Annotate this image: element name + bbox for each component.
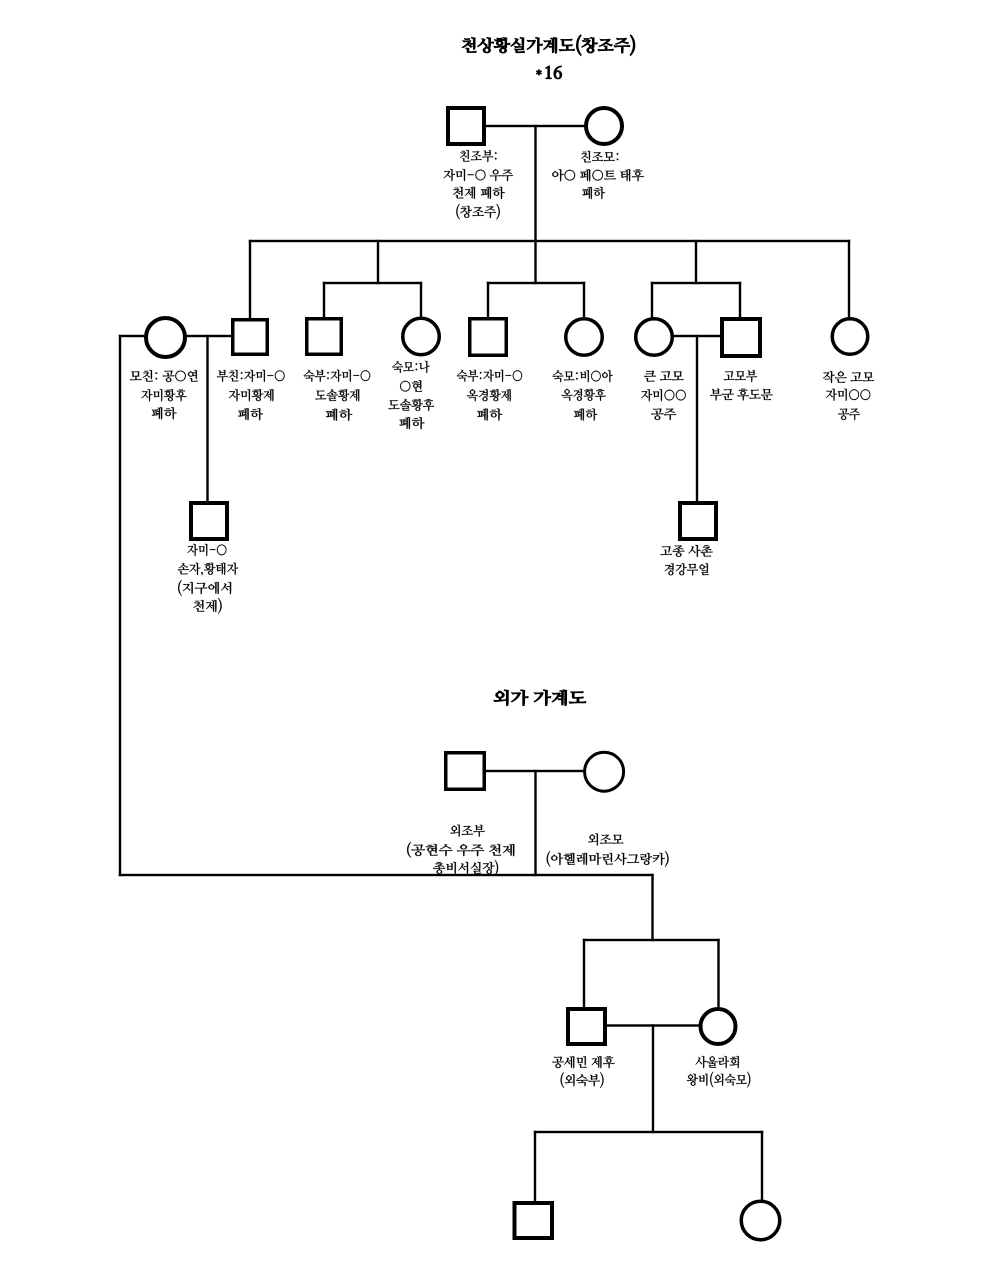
label 큰고모 line1 (644, 371, 684, 382)
label 고종사촌 line2 (665, 563, 709, 575)
wire last generation bus (534, 1131, 763, 1133)
wire drop to bracket 큰고모/고모부 (695, 240, 697, 284)
circle 사울라회 외숙모 (701, 1009, 736, 1044)
square 숙부2 옥경황제 (470, 319, 507, 356)
label 공세민 line2 (561, 1072, 604, 1088)
wire bracket leg to 공세민 (583, 939, 585, 1009)
wire drop to son 자미-○ (206, 335, 208, 502)
wire bracket bar 공세민/사울라회 (583, 939, 720, 941)
label 자미 line3 (178, 580, 231, 596)
circle 외조모 (585, 752, 624, 791)
label 친조모 line1 (581, 151, 618, 163)
label 사울라회 line1 (695, 1056, 739, 1068)
wire marriage 큰고모-고모부 (673, 335, 721, 337)
label 친조부 line1 (460, 150, 497, 162)
wire marriage 외조부-외조모 (485, 770, 585, 772)
label 큰고모 line2 (641, 389, 686, 401)
wire drop to 고종사촌 (696, 335, 698, 502)
wire drop to bracket 숙부1/숙모1 (377, 240, 379, 284)
label 큰고모 line3 (651, 408, 676, 420)
label 자미 line4 (193, 598, 221, 614)
wire bracket bar 숙부1/숙모1 (323, 282, 422, 284)
label 자미 line1 (187, 544, 226, 556)
label 숙부2 line2 (467, 389, 511, 401)
square last generation son (515, 1203, 553, 1238)
circle 친조모 paternal grandmother (586, 108, 622, 144)
wire bracket bar 숙부2/숙모2 (487, 282, 585, 284)
wire gen2 sibling bus (249, 240, 850, 242)
label 숙부1 line2 (315, 389, 359, 401)
label 친조부 line4 (456, 204, 499, 220)
label 친조부 line3 (453, 187, 505, 199)
label 외조부 line1 (450, 824, 485, 836)
title 천상황실가계도(창조주) (462, 35, 635, 56)
label 공세민 line1 (552, 1056, 614, 1068)
label 부친 line2 (229, 389, 274, 401)
wire drop to last son (534, 1131, 536, 1202)
wire bracket leg to 큰고모 (651, 282, 653, 319)
wire drop to last daughter (761, 1131, 763, 1202)
label 고종사촌 line1 (660, 545, 712, 557)
title 외가 가계도 (494, 690, 586, 706)
label 숙모2 line3 (574, 408, 597, 420)
wire long left vertical from 모친 to maternal sibling bus (119, 335, 121, 876)
square 외조부 (446, 753, 485, 790)
square 자미-○ grandson crown prince (191, 503, 227, 539)
circle last generation daughter (741, 1201, 780, 1240)
label 숙부2 line1 (457, 370, 522, 382)
wire bracket leg to 숙부2 (487, 282, 489, 319)
wire bracket leg to 숙모2 (583, 282, 585, 319)
wire drop to 작은고모 (848, 240, 850, 319)
wire maternal sibling bus (119, 874, 654, 876)
wire bracket bar 큰고모/고모부 (651, 282, 741, 284)
square 부친 (233, 320, 268, 355)
label 숙부1 line3 (326, 409, 352, 421)
wire drop to 부친 (249, 240, 251, 319)
square 친조부 paternal grandfather (448, 108, 484, 144)
circle 작은고모 (832, 319, 868, 355)
label 부친 line3 (238, 408, 263, 420)
label 고모부 line1 (724, 370, 757, 382)
label 숙부2 line3 (477, 408, 502, 420)
label 외조모 line2 (547, 851, 669, 867)
label 친조모 line2 (552, 169, 643, 181)
circle 숙모2 비○아 (566, 319, 603, 356)
label 외조부 line2 (407, 842, 514, 858)
wire bracket leg to 숙모1 (420, 282, 422, 319)
label 자미 line2 (178, 563, 238, 576)
wire drop from gen1 couple down through bus to middle bracket (534, 125, 536, 284)
label 사울라회 line2 (687, 1072, 751, 1088)
label 친조부 line2 (444, 169, 513, 181)
label 모친 line3 (152, 407, 177, 419)
wire marriage 모친-부친 (186, 335, 232, 337)
label 숙모1 line2 (400, 380, 422, 392)
circle 큰고모 (636, 319, 673, 356)
square 고모부 (722, 319, 760, 356)
label 부친 line1 (217, 370, 285, 382)
label 작은고모 line3 (838, 408, 860, 420)
label 숙모1 line3 (388, 399, 434, 411)
wire stub left of 모친 (119, 335, 147, 337)
wire bracket leg to 고모부 (739, 282, 741, 319)
label 숙모1 line4 (399, 417, 424, 429)
square 공세민 외숙부 (568, 1009, 605, 1044)
subtitle 16 (546, 66, 562, 79)
circle 모친 (146, 318, 185, 357)
wire drop from 공세민 couple to last bus (652, 1024, 654, 1133)
label 고모부 line2 (710, 388, 772, 400)
wire bracket leg to 사울라회 (717, 939, 719, 1009)
wire marriage 공세민-사울라회 (606, 1024, 700, 1026)
square 숙부1 도솔황제 (307, 319, 342, 355)
wire drop from 외조부 couple to maternal bus (534, 770, 536, 876)
label 외조모 line1 (588, 833, 623, 845)
label 친조모 line3 (582, 187, 605, 199)
wire bracket leg to 숙부1 (323, 282, 325, 319)
circle 숙모1 나○현 (403, 318, 440, 355)
label 숙모2 line1 (552, 370, 612, 382)
label 외조부 line3 (433, 860, 498, 876)
label 작은고모 line1 (823, 371, 874, 383)
wire marriage 친조부-친조모 (485, 125, 585, 127)
label 숙부1 line1 (304, 370, 371, 382)
label 모친 line1 (130, 370, 198, 382)
wire drop to bracket 공세민/사울라회 (651, 874, 653, 941)
label 숙모1 line1 (392, 361, 429, 373)
label 숙모2 line2 (562, 389, 606, 401)
square 고종사촌 경강무얼 (680, 503, 716, 539)
subtitle *16 asterisk (536, 69, 542, 75)
label 작은고모 line2 (826, 389, 870, 401)
label 모친 line2 (141, 389, 186, 401)
